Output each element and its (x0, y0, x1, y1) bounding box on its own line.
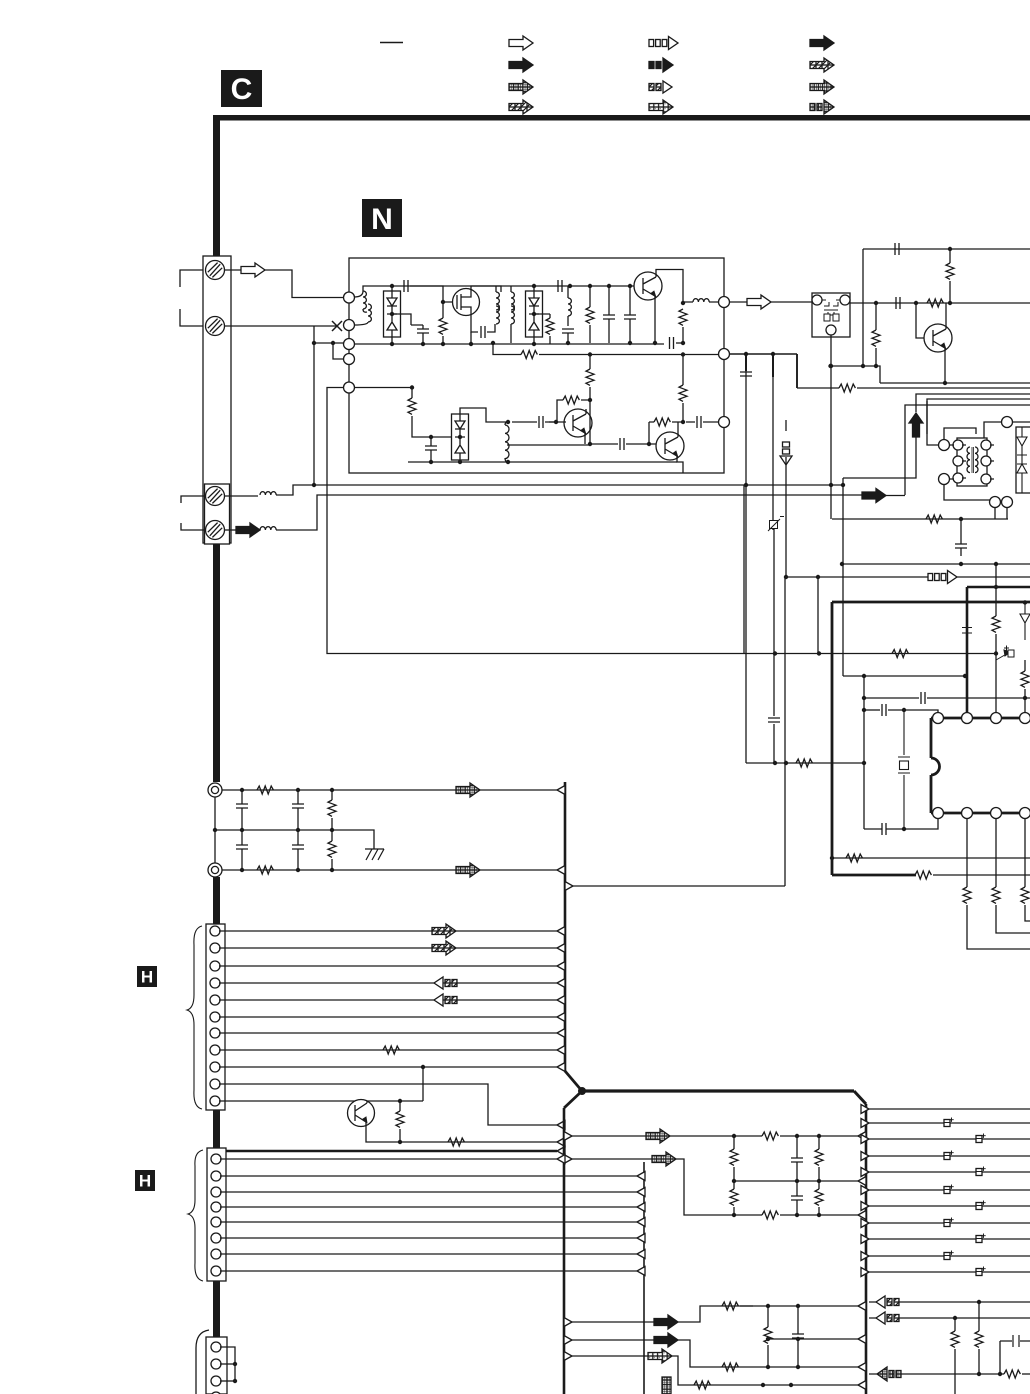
arrow solid y1340 (654, 1333, 678, 1347)
cap C1 top (404, 280, 408, 292)
wire U1-8 down (1025, 819, 1030, 922)
resistor R q3 vert (764, 1327, 772, 1343)
wire out y1239 (869, 1238, 1030, 1240)
wire R8 (649, 421, 683, 423)
wire R r3 tail (1022, 1373, 1030, 1375)
tri out y1123 (861, 1119, 869, 1128)
resistor R6 (586, 369, 594, 385)
junction y485 a (312, 483, 316, 487)
cap C p4 (962, 610, 972, 640)
wire pin5 to loop (327, 388, 746, 654)
wire Cb1 (297, 790, 299, 830)
diode pack D1 (384, 291, 401, 337)
junction C4 (568, 284, 572, 288)
SECTION: labels (135, 70, 402, 1191)
arrow boxes-open down (780, 442, 792, 465)
transistor Q3 npn (564, 409, 592, 437)
resistor R y355 (521, 351, 537, 359)
junction y676 b (963, 674, 967, 678)
wire out y1272 (869, 1271, 1030, 1273)
tri H2-5 (637, 1218, 645, 1227)
arrow boxes-hatch left y1302 (876, 1296, 899, 1308)
cap C2 (417, 329, 429, 333)
wire L5 bottom (505, 458, 508, 462)
pin 1 screw (206, 261, 225, 280)
junction bottom rail (676, 461, 678, 463)
legend arrow dotted (649, 100, 673, 114)
resistor R q1 (722, 1302, 738, 1310)
wire x774 lower (773, 529, 775, 763)
cap Ca1 (236, 804, 248, 808)
wire y577 tail (957, 576, 1030, 578)
junction y710 (862, 708, 866, 712)
resistor R t2 vertical (946, 263, 954, 279)
wire C p1 right (927, 697, 1030, 699)
nested wire outer (905, 405, 1030, 495)
wire Ca1 (241, 790, 243, 830)
SECTION: connector H1 (187, 924, 565, 1156)
wire arrow to filter (771, 301, 812, 303)
pin U1-1 (933, 713, 944, 724)
wire y1181 mid (734, 1180, 862, 1182)
pin U1-8 (1020, 808, 1030, 819)
pin H2-7 (211, 1249, 221, 1259)
inductor L1 (260, 492, 276, 495)
arrow hatch row2 (456, 863, 480, 877)
junction R4 top (588, 284, 592, 288)
junction y1318 (870, 1317, 872, 1319)
wire down-arrow stem (785, 420, 787, 577)
resistor R row1 (257, 786, 273, 794)
legend arrow diagonal (509, 100, 533, 114)
pin 3 screw (206, 487, 225, 506)
wire C q1 (797, 1306, 799, 1367)
label N (362, 199, 402, 237)
junction y858 left (830, 856, 834, 860)
tri H1-5 (557, 996, 565, 1005)
cap C l1 vert (791, 1158, 803, 1162)
connector CN inner box (205, 484, 230, 544)
cap C3 (481, 326, 485, 338)
junction mid a (240, 828, 244, 832)
tri y1215 right (858, 1211, 866, 1220)
wire C l1 (796, 1136, 798, 1181)
cap C7 (624, 315, 636, 319)
cap Ca2 (236, 845, 248, 849)
wire y1340 (572, 1339, 654, 1341)
resistor R l1 (762, 1132, 778, 1140)
tri H1-6 (557, 1029, 565, 1038)
tri thick row (557, 1147, 565, 1156)
wire C2 (411, 325, 423, 344)
legend arrow solid2 (810, 36, 834, 50)
wire out y1139 (869, 1138, 1030, 1140)
legend arrow open-boxes (649, 37, 678, 50)
IC U1 body (931, 718, 1030, 813)
wire TB routing top (944, 428, 976, 440)
resistor R p2 (846, 854, 862, 862)
junction Q2 emitter (653, 341, 657, 345)
resistor Rv2 (328, 841, 336, 857)
resistor R t1 (927, 299, 943, 307)
transistor Q5 npn (348, 1100, 375, 1129)
tri y1181 right (858, 1177, 866, 1186)
wire gate res (442, 302, 444, 344)
arrow diag H1-1 (432, 924, 456, 938)
junction y654 b (817, 651, 821, 655)
tri H2-6 (637, 1234, 645, 1243)
connector CN body (203, 256, 231, 543)
coil L3 (568, 298, 571, 316)
junction C5 rail (566, 341, 570, 345)
SECTION: power IC block (746, 562, 1030, 949)
wire filter out (850, 302, 876, 304)
crystal X1 (898, 710, 910, 829)
wire y763 row (746, 762, 864, 764)
cap C6 (603, 315, 615, 319)
wire Ca2 (241, 830, 243, 870)
plus cap mark (1004, 646, 1014, 658)
junction row1 a (240, 788, 244, 792)
junction y519 (959, 517, 963, 521)
arrow diag H1-2 (432, 941, 456, 955)
wire R7 (557, 400, 590, 422)
wire Q5 emitter row (366, 1128, 557, 1142)
cap Cb2 (292, 845, 304, 849)
pin small TB c (953, 473, 963, 483)
junction y1306 b (796, 1304, 800, 1308)
resistor R q4 (694, 1381, 710, 1389)
connector H1 body (206, 924, 225, 1110)
wire C6 (608, 286, 610, 343)
resistor R t3 vertical (872, 330, 880, 346)
pin N2 (344, 320, 355, 331)
pin small TB e (981, 456, 991, 466)
wire R p6 (1024, 660, 1026, 713)
resistor R p3 (892, 650, 908, 658)
junction R r2 bottom (977, 1372, 981, 1376)
pin 2 screw (206, 317, 225, 336)
coil L4 out (693, 299, 709, 302)
wire out y1172 (869, 1171, 1030, 1173)
wire TB1 left (927, 401, 938, 445)
junction y654 d (994, 651, 998, 655)
wire H1-10 (219, 1100, 423, 1102)
wire arrow stem down (843, 437, 916, 478)
tri H1-2 (557, 944, 565, 953)
sqplus y1272 (976, 1267, 986, 1276)
legend dash (380, 42, 403, 44)
wire L5 top (505, 422, 508, 425)
wire y1374 (869, 1373, 1004, 1375)
wire pin2 to N (225, 325, 337, 327)
tri y1385 right (858, 1381, 866, 1390)
X mark no-connect (332, 321, 342, 331)
wire L3 (567, 286, 569, 326)
legend arrow open (509, 36, 533, 50)
tri out y1109 (861, 1105, 869, 1114)
pin U1-2 (962, 713, 973, 724)
pin TB2 (939, 474, 950, 485)
wire y1159 cont (676, 1159, 753, 1215)
junction y354 right (681, 352, 685, 356)
legend arrow hatch-boxes (649, 81, 672, 93)
wire x785 to bus wire (784, 577, 786, 886)
junction pin2 branch (312, 341, 316, 345)
junction y763 b (784, 761, 788, 765)
wire y1356 (572, 1355, 648, 1357)
bus thick top rail (832, 601, 1030, 604)
wire U1-6 down (967, 819, 1030, 950)
wire mid y1339 (768, 1338, 862, 1340)
wire L1 to bus y485 (276, 485, 843, 495)
pin H2-4 (211, 1202, 221, 1212)
jack pin bottom (208, 863, 222, 877)
trimmer symbol (768, 517, 784, 532)
cap C t2 (896, 297, 900, 309)
wire pin N2 to coil (354, 322, 368, 325)
bus exit tri y1136 (564, 1132, 572, 1141)
svg-text:H: H (139, 1172, 151, 1191)
arrow open out pin1 (241, 263, 265, 277)
wire y1159 (572, 1158, 652, 1160)
wire row y790 (222, 789, 560, 791)
wire C7 (629, 286, 631, 343)
junction y1306 a (766, 1304, 770, 1308)
tri H1-4 (557, 979, 565, 988)
resistor R l5 vert (815, 1189, 823, 1205)
junction C10 bottom (429, 460, 433, 464)
resistor R q2 (722, 1363, 738, 1371)
wire L5 tap (507, 444, 590, 446)
wire x1000 drop (999, 1341, 1001, 1374)
wire H2-3 (220, 1191, 637, 1193)
junction R5 bottom (681, 341, 685, 345)
wire C3 to transformer (487, 324, 495, 332)
wire out y1206 (869, 1205, 1030, 1207)
arrow boxes-hatch left y1318 (876, 1312, 899, 1324)
wire pin4 arrow feed (225, 529, 237, 531)
wire y1318 (869, 1317, 1030, 1319)
wire H2-6 (220, 1237, 637, 1239)
wire Rv2 (331, 830, 333, 870)
cap C t1 (895, 243, 899, 255)
label H2 (135, 1170, 155, 1191)
wire y1322 (572, 1321, 654, 1323)
wire TB3 left (984, 422, 1001, 438)
wire TB4 down (994, 507, 996, 519)
SECTION: right outputs (861, 1105, 1030, 1394)
wire y388 row (857, 387, 1030, 389)
wire H2-2 (220, 1175, 637, 1177)
svg-text:C: C (231, 73, 253, 106)
junction y1181 a (732, 1179, 736, 1183)
pin H2-5 (211, 1217, 221, 1227)
wire x863 vertical (862, 249, 864, 366)
junction y763 c (862, 761, 866, 765)
bus thick left vertical (831, 602, 834, 875)
wire x797 down (796, 354, 798, 388)
junction D2 bottom (532, 342, 536, 346)
wire B3 stub (220, 1380, 235, 1382)
legend arrow diag2 (810, 58, 834, 72)
wire R5 (682, 309, 684, 343)
rail y354 from rail1 drop (493, 343, 719, 355)
wire C8 to Q4 base (626, 443, 656, 445)
tri H1-7 (557, 1046, 565, 1055)
wire Q4 emitter (677, 460, 683, 473)
resistor R l4 vert (730, 1189, 738, 1205)
junction y249 (948, 247, 952, 251)
wire R r2 (978, 1302, 980, 1374)
junction y654 a (773, 651, 777, 655)
pin N7 right (719, 349, 730, 360)
tri out y1272 (861, 1268, 869, 1277)
transformer T2 bar (972, 447, 974, 473)
tri H1-9 (557, 1121, 565, 1130)
junction x996 y564 (994, 562, 998, 566)
sqplus y1172 (976, 1167, 986, 1176)
junction H1-10 a (398, 1099, 402, 1103)
pin TB3 (1002, 417, 1013, 428)
pin U1-5 (933, 808, 944, 819)
wire C p2 right (888, 710, 938, 712)
bus inner line x644 (643, 1162, 645, 1394)
wire pin3 coil feed (225, 495, 259, 497)
wire loop right edge up (743, 485, 745, 653)
junction Q3 base (554, 420, 558, 424)
wire row y870 (222, 869, 560, 871)
resistor R H1-7 (383, 1046, 399, 1054)
brace H1 (187, 926, 202, 1109)
wire T1 pri top (495, 286, 497, 292)
wire out y1190 (869, 1189, 1030, 1191)
connector H2 body (207, 1148, 226, 1281)
junction mid b (296, 828, 300, 832)
FET Q1 (453, 288, 480, 316)
resistor R p8 (992, 887, 1000, 903)
cap C r1 (1000, 1335, 1030, 1347)
junction row2 b (296, 868, 300, 872)
junction D2 top (532, 284, 536, 288)
tri H2-4 (637, 1203, 645, 1212)
junction x1000 (998, 1372, 1002, 1376)
resistor R p9 (1021, 887, 1029, 903)
wire thick vertical below pins (213, 877, 220, 924)
wire thick x967 up (966, 587, 969, 713)
resistor R5 (679, 309, 687, 325)
wire H1-7 (219, 1049, 557, 1051)
wire C10 (430, 437, 432, 462)
tri y1339 right (858, 1335, 866, 1344)
junction x961 y564 (959, 562, 963, 566)
junction y1181 b (795, 1179, 799, 1183)
wire y1302 (869, 1301, 1030, 1303)
pin H1-5 (210, 995, 220, 1005)
wire y1340 cont (678, 1340, 862, 1367)
wire y1215 (753, 1214, 862, 1216)
junction R l1 b (795, 1134, 799, 1138)
wire y366 rail (830, 366, 880, 383)
tri out y1190 (861, 1186, 869, 1195)
pin N3 (344, 339, 355, 350)
cap C4 top rail right (558, 280, 562, 292)
resistor R D2 (546, 318, 554, 334)
cap C p1 (921, 692, 925, 704)
junction Q3 emitter row (588, 442, 592, 446)
wire D1 mid tap (392, 314, 411, 325)
wire Q6 base (916, 303, 924, 338)
wire y343 stub (314, 342, 344, 344)
junction y303 b (914, 301, 918, 305)
cap C q1 vert (792, 1334, 804, 1338)
wire H1-3 (219, 965, 557, 967)
resistor R p4 (796, 759, 812, 767)
pin H2-8 (211, 1266, 221, 1276)
transformer T1 primary (496, 292, 499, 310)
wire H1-4 (219, 982, 557, 984)
pin B1 (211, 1342, 221, 1352)
wire to pin TB3 (1012, 421, 1030, 423)
resistor R l6 (762, 1211, 778, 1219)
cap C9 out (697, 416, 701, 428)
wire x831 branch (830, 366, 832, 519)
junction y1367 b (796, 1365, 800, 1369)
pin N4 (344, 354, 355, 365)
pin H1-10 (210, 1096, 220, 1106)
junction y1385 a (761, 1383, 765, 1387)
wire H1-9 reroute (219, 1084, 557, 1125)
bus top rail to right (582, 1089, 854, 1092)
resistor R4 (586, 307, 594, 323)
wire R l3 (818, 1136, 820, 1181)
resistor R r2 vert (975, 1331, 983, 1347)
diode D p1 (1020, 602, 1030, 640)
wire C l2 (796, 1181, 798, 1215)
border left thick line (213, 115, 220, 256)
junction FET source (469, 342, 473, 346)
resistor R l2 vert (730, 1149, 738, 1165)
junction y676 a (862, 674, 866, 678)
wire Q6 collector (945, 303, 947, 324)
resistor R p1 (915, 871, 931, 879)
pin U1-4 (1020, 713, 1030, 724)
junction y485 c (829, 483, 833, 487)
arrow dotted y1356 (648, 1349, 672, 1363)
junction D3 mid (458, 435, 462, 439)
wire thick H2 top (222, 1150, 557, 1153)
bus lower right edge (865, 1104, 868, 1394)
wire x773 vertical (772, 354, 774, 377)
arrow boxes-open y577 (928, 571, 957, 584)
wire H1-5 (219, 999, 557, 1001)
SECTION: block N oscillator (344, 258, 730, 473)
junction gate res bottom (441, 342, 445, 346)
SECTION: connector bottom (196, 1330, 237, 1394)
pin B4 (211, 1392, 221, 1394)
wire y698 row (864, 697, 919, 699)
SECTION: frame (213, 115, 1030, 1337)
wire H2-8 (220, 1270, 637, 1272)
resistor R r3 (1004, 1370, 1020, 1378)
junction D3 bottom (458, 460, 462, 464)
junction y1367 a (766, 1365, 770, 1369)
wire Q2 collector (656, 270, 683, 304)
junction D1 mid (390, 312, 394, 316)
junction x1025 y602 (1023, 600, 1027, 604)
junction rail drop (491, 341, 495, 345)
junction C7 bottom (628, 341, 632, 345)
